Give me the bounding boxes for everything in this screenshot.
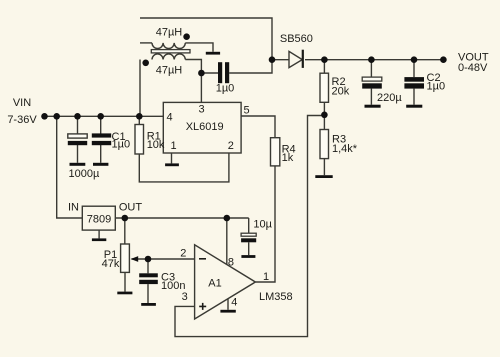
svg-text:3: 3	[182, 291, 188, 303]
svg-text:3: 3	[198, 103, 204, 115]
wire transformer bottom winding left lead down to VIN rail	[139, 60, 141, 117]
ground bar for 1000u	[70, 163, 86, 166]
wire 220u top stub	[370, 60, 372, 77]
wire feedback node to op-amp pin 3	[175, 116, 324, 337]
svg-text:5: 5	[243, 105, 249, 117]
op-amp minus input sign	[199, 258, 206, 260]
wire 1000u top stub	[77, 116, 79, 133]
wire op-amp pin 4 ground stub	[227, 299, 229, 310]
wire C1 bottom stub	[100, 145, 102, 163]
capacitor 10u	[241, 233, 256, 242]
svg-text:10µ: 10µ	[253, 219, 272, 231]
wire coupling cap to diode anode node	[229, 60, 272, 73]
node 220u	[368, 56, 375, 63]
ground bar for 220u	[365, 105, 381, 108]
ground bar for C1	[93, 163, 108, 166]
wire pin 2 node to op-amp inverting input	[148, 258, 195, 260]
svg-text:1000µ: 1000µ	[69, 168, 100, 180]
ground bar for C3	[141, 303, 156, 306]
ground bar for R3	[315, 175, 332, 178]
wire R1 bottom to pin 2	[139, 153, 229, 182]
capacitor C3	[139, 273, 158, 284]
wire C2 bottom stub	[413, 89, 415, 105]
wire OUT node down to P1 top	[124, 218, 126, 244]
terminal VIN	[41, 113, 48, 120]
wire VIN rail	[45, 115, 164, 117]
svg-text:7-36V: 7-36V	[7, 114, 37, 126]
svg-text:LM358: LM358	[259, 291, 293, 303]
wire 7809 OUT rail	[115, 217, 248, 219]
capacitor 220u electrolytic	[362, 77, 382, 89]
node VIN drop	[53, 113, 60, 120]
ground bar for L1	[206, 52, 220, 55]
node diode anode	[269, 56, 276, 63]
wire 1000u bottom stub	[77, 145, 79, 163]
wire R3 bottom stub	[323, 159, 325, 176]
svg-text:47µH: 47µH	[156, 65, 183, 77]
svg-text:IN: IN	[68, 202, 79, 214]
node C1	[97, 113, 104, 120]
junction and terminal dots	[41, 56, 447, 262]
wire XL6019 pin 1 ground stub	[171, 153, 173, 163]
resistor R4	[271, 138, 280, 166]
polarity dot L1	[183, 33, 190, 40]
capacitor 1000u electrolytic	[68, 134, 87, 145]
node C2	[411, 56, 418, 63]
potentiometer P1	[121, 244, 130, 272]
wire R2 top stub	[323, 60, 325, 73]
wire node pin3 to C coupling cap	[201, 72, 218, 74]
node 1000u	[74, 113, 81, 120]
wire VIN drop to 7809 IN	[57, 116, 83, 218]
svg-text:A1: A1	[208, 278, 221, 290]
capacitor C2	[404, 77, 424, 89]
ground bar for 7809	[92, 238, 106, 241]
svg-text:1µ0: 1µ0	[112, 139, 131, 151]
wire 10u cap ground stub	[248, 242, 250, 255]
wire VOUT rail	[305, 59, 443, 61]
terminal VOUT	[440, 56, 447, 63]
svg-text:4: 4	[231, 297, 237, 309]
resistor R2	[320, 73, 329, 102]
svg-text:20k: 20k	[332, 86, 350, 98]
capacitor coupling 1u0 plates	[218, 62, 229, 83]
wire L1 right lead to ground	[185, 43, 213, 52]
node R2 top	[321, 56, 328, 63]
svg-text:10k: 10k	[147, 139, 165, 151]
svg-text:220µ: 220µ	[377, 92, 402, 104]
svg-text:1: 1	[171, 140, 177, 152]
diode SB560	[289, 50, 304, 68]
ground bar for op-amp pin 4	[220, 310, 235, 313]
transformer core	[151, 50, 190, 53]
wire 220u bottom stub	[370, 89, 372, 105]
IC 7809 regulator	[82, 206, 115, 230]
svg-text:XL6019: XL6019	[186, 121, 224, 133]
wire 7809 ground stub	[98, 230, 100, 238]
wire L1 left lead	[140, 42, 152, 44]
resistor R1	[135, 125, 144, 155]
wire diode anode lead	[272, 59, 289, 61]
svg-text:OUT: OUT	[119, 202, 143, 214]
inductor L2 bottom winding 47uH	[152, 54, 185, 60]
svg-text:1k: 1k	[282, 152, 294, 164]
svg-text:4: 4	[167, 112, 173, 124]
ground bar for C2	[406, 105, 422, 108]
wire P1 wiper to pin 2 node	[132, 258, 149, 260]
wire R1 top stub	[138, 116, 140, 124]
wire down to 10u cap	[248, 218, 250, 233]
P1 wiper arrow	[131, 256, 139, 262]
polarity dot L2	[142, 60, 149, 67]
wire top rail L1 top lead to diode anode node	[140, 18, 272, 60]
svg-text:0-48V: 0-48V	[458, 62, 488, 74]
wire pin 5 to R4 top	[241, 116, 275, 138]
svg-text:1,4k*: 1,4k*	[332, 143, 358, 155]
wire C3 ground stub	[147, 284, 149, 303]
IC U1 XL6019	[163, 102, 241, 153]
op-amp A1 LM358	[195, 245, 256, 319]
wire node to op-amp pin 8	[226, 218, 228, 265]
wire R2 bottom to R3 top	[323, 102, 325, 129]
svg-text:47k: 47k	[102, 258, 120, 270]
svg-text:47µH: 47µH	[156, 27, 183, 39]
inductor L1 top winding 47uH	[152, 43, 185, 49]
node R1 pin4	[136, 113, 143, 120]
node pin3 cap branch	[198, 70, 205, 77]
node pin 2 wiper C3	[145, 256, 152, 263]
node 7809 OUT	[122, 215, 129, 222]
node pin 8 branch	[224, 215, 231, 222]
svg-text:2: 2	[180, 247, 186, 259]
wire C3 top stub	[147, 259, 149, 273]
node R2 R3 feedback	[321, 112, 328, 119]
capacitor C1	[92, 133, 111, 145]
svg-text:1: 1	[263, 271, 269, 283]
wire C1 top stub	[100, 116, 102, 134]
svg-text:2: 2	[228, 140, 234, 152]
ground bar for P1	[117, 292, 132, 295]
wire P1 bottom stub	[124, 272, 126, 291]
svg-text:7809: 7809	[87, 213, 111, 225]
svg-text:8: 8	[228, 257, 234, 269]
svg-text:1µ0: 1µ0	[216, 82, 235, 94]
svg-text:SB560: SB560	[280, 33, 313, 45]
wire R4 bottom to op-amp output pin 1	[255, 166, 275, 282]
wire C2 top stub	[413, 60, 415, 77]
ground bar for 10u	[241, 255, 255, 258]
svg-text:VIN: VIN	[13, 97, 31, 109]
op-amp plus input sign	[199, 303, 206, 310]
ground bar for pin 1	[165, 163, 179, 166]
svg-text:1µ0: 1µ0	[427, 81, 446, 93]
resistor R3	[320, 130, 329, 159]
wire transformer bottom winding right lead to pin 3	[185, 60, 201, 103]
